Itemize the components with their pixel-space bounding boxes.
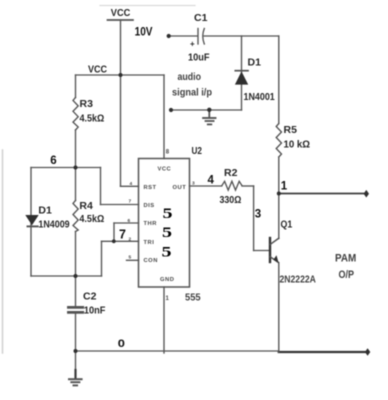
svg-text:8: 8 (166, 150, 170, 156)
svg-text:1N4009: 1N4009 (38, 219, 70, 231)
svg-text:OUT: OUT (173, 185, 187, 191)
svg-text:C2: C2 (83, 291, 97, 303)
svg-text:R3: R3 (80, 98, 94, 110)
svg-text:R5: R5 (284, 124, 298, 136)
svg-text:R2: R2 (224, 167, 238, 179)
svg-text:7: 7 (129, 199, 132, 205)
svg-text:5: 5 (162, 224, 172, 241)
svg-text:D1: D1 (38, 205, 52, 217)
svg-text:4: 4 (130, 181, 133, 187)
svg-text:10uF: 10uF (188, 52, 210, 64)
svg-text:VCC: VCC (88, 64, 107, 76)
svg-text:10nF: 10nF (84, 305, 106, 317)
svg-text:10 kΩ: 10 kΩ (284, 139, 311, 150)
svg-text:4.5kΩ: 4.5kΩ (80, 113, 105, 125)
svg-text:330Ω: 330Ω (220, 194, 242, 206)
svg-text:D1: D1 (248, 56, 262, 68)
svg-text:6: 6 (128, 218, 131, 224)
svg-text:CON: CON (144, 258, 158, 264)
svg-text:5: 5 (162, 243, 172, 260)
svg-text:O/P: O/P (339, 269, 355, 281)
svg-text:1: 1 (166, 296, 170, 302)
svg-text:Q1: Q1 (281, 219, 293, 231)
svg-text:6: 6 (50, 155, 56, 167)
svg-text:7: 7 (119, 228, 126, 242)
svg-text:555: 555 (185, 292, 201, 304)
svg-text:0: 0 (118, 337, 125, 350)
svg-text:R4: R4 (79, 200, 93, 212)
svg-text:DIS: DIS (144, 203, 155, 209)
svg-text:2: 2 (129, 236, 132, 242)
svg-text:signal i/p: signal i/p (172, 87, 212, 99)
svg-text:3: 3 (192, 181, 195, 187)
svg-text:U2: U2 (192, 144, 202, 156)
svg-text:+: + (190, 40, 195, 49)
svg-text:GND: GND (160, 277, 174, 283)
svg-text:1N4001: 1N4001 (244, 91, 276, 103)
svg-text:THR: THR (144, 221, 158, 227)
svg-text:1: 1 (281, 180, 288, 192)
svg-text:3: 3 (255, 208, 261, 220)
svg-text:4: 4 (208, 174, 215, 186)
svg-text:VCC: VCC (111, 8, 130, 20)
svg-text:RST: RST (144, 185, 157, 191)
svg-text:10V: 10V (135, 26, 153, 39)
svg-text:TRI: TRI (144, 240, 155, 246)
svg-text:4.5kΩ: 4.5kΩ (79, 214, 104, 226)
svg-text:PAM: PAM (335, 253, 357, 265)
svg-text:C1: C1 (194, 12, 208, 24)
svg-text:5: 5 (163, 205, 173, 222)
svg-text:2N2222A: 2N2222A (280, 274, 316, 286)
svg-text:audio: audio (178, 72, 202, 84)
svg-text:5: 5 (129, 255, 132, 261)
svg-text:VCC: VCC (158, 167, 172, 173)
